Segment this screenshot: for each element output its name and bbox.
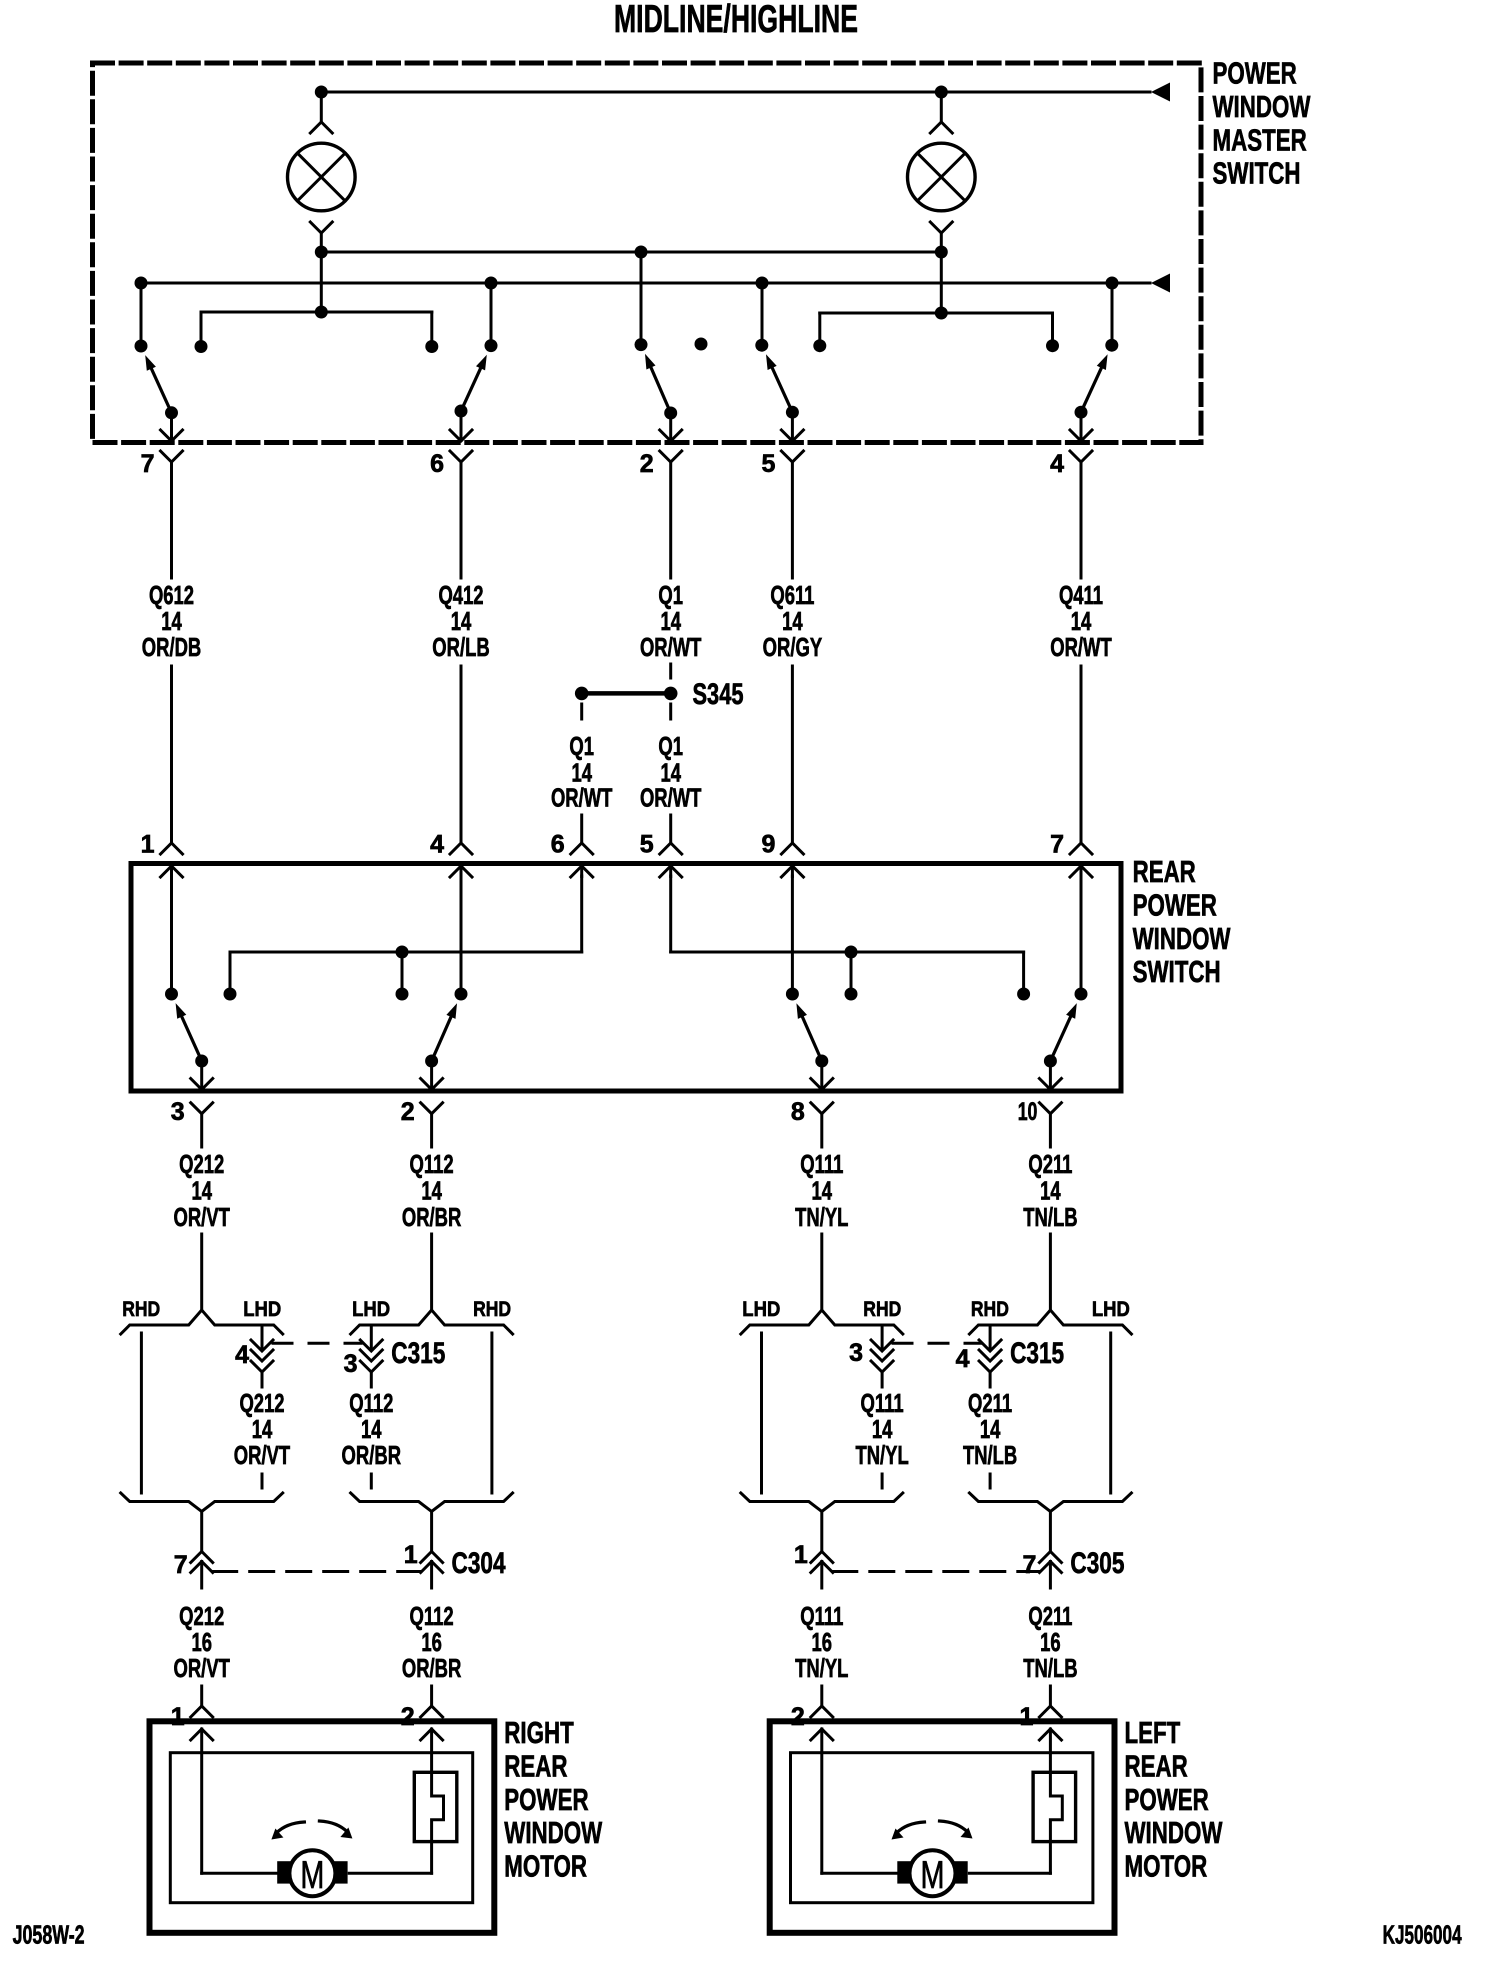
motor pin 1 connector: [191, 1706, 213, 1740]
svg-text:2: 2: [791, 1703, 805, 1731]
svg-text:2: 2: [401, 1098, 415, 1126]
motor box inner housing: [791, 1753, 1093, 1903]
rear switch pin 1 connector: [161, 843, 183, 877]
wire label Q1 14 OR/WT (right branch): [640, 731, 702, 813]
splice S345: [575, 687, 678, 701]
switch contact dot (701,344): [695, 338, 708, 351]
wire Q211 plain branch: [1109, 1333, 1112, 1493]
wire bus y=283 with junction dots: [135, 277, 1119, 290]
master switch pin 6 connector: [450, 413, 472, 578]
wire stub x=491: [490, 283, 493, 346]
rear switch interior wire pin9: [791, 876, 794, 994]
master switch pin6 arm: [455, 355, 487, 418]
rear switch interior wire pin5 to right bus: [671, 876, 1024, 994]
switch contact dot (641,344.6): [635, 338, 648, 351]
motor box inner housing: [170, 1753, 472, 1903]
power window master switch dashed box: [93, 63, 1202, 443]
switch contact dot (491,345.6): [485, 339, 498, 352]
rear switch interior wire pin6 to left bus: [230, 876, 582, 994]
wire label Q211 14 TN/LB: [1023, 1149, 1077, 1232]
label LEFT REAR POWER WINDOW MOTOR: [1125, 1715, 1223, 1884]
wire bus y=313 right: [820, 307, 1053, 320]
rear switch contact dot (792.4,994): [786, 988, 799, 1001]
svg-text:Q212: Q212: [179, 1149, 224, 1179]
rear switch contact dot (1081,994): [1075, 988, 1088, 1001]
wire 5 run to rear switch: [791, 666, 794, 843]
svg-text:POWER: POWER: [1213, 56, 1297, 91]
svg-text:M: M: [921, 1854, 945, 1897]
svg-text:MIDLINE/HIGHLINE: MIDLINE/HIGHLINE: [614, 0, 858, 41]
wire label Q412 14 OR/LB: [432, 580, 489, 662]
svg-text:MOTOR: MOTOR: [504, 1849, 587, 1884]
svg-text:Q1: Q1: [569, 731, 594, 761]
master switch pin2 arm: [645, 354, 677, 420]
svg-text:RIGHT: RIGHT: [504, 1715, 573, 1750]
wire Q112 plain branch: [490, 1333, 493, 1493]
svg-text:14: 14: [812, 1176, 833, 1206]
svg-text:WINDOW: WINDOW: [504, 1815, 602, 1850]
rear switch contact dot (230,994): [224, 988, 237, 1001]
wire 4 run to rear switch: [1080, 666, 1083, 843]
svg-text:REAR: REAR: [504, 1748, 567, 1783]
lamp 2 (illumination lamp): [908, 143, 976, 211]
wire label Q1 14 OR/WT (left branch): [551, 731, 613, 813]
svg-text:TN/LB: TN/LB: [963, 1440, 1017, 1470]
svg-text:OR/VT: OR/VT: [174, 1202, 230, 1232]
circuit breaker: [414, 1729, 457, 1873]
rear switch pin 9 connector: [781, 843, 803, 877]
svg-text:4: 4: [235, 1341, 249, 1369]
harness split top brace at x=821.8: [741, 1310, 903, 1334]
circuit breaker: [1033, 1729, 1076, 1873]
lamp 1 (illumination lamp): [288, 143, 356, 211]
motor pin 2 connector: [421, 1706, 443, 1740]
wire motor feed right: [349, 1872, 431, 1875]
svg-text:LHD: LHD: [742, 1297, 780, 1321]
wire label Q612 14 OR/DB: [142, 580, 202, 662]
svg-text:OR/BR: OR/BR: [402, 1202, 462, 1232]
svg-text:SWITCH: SWITCH: [1213, 156, 1301, 191]
wire label Q111 14 TN/YL (branch): [855, 1388, 908, 1470]
svg-text:C304: C304: [452, 1547, 506, 1580]
svg-text:7: 7: [141, 450, 155, 478]
wire Q111 run to motor: [820, 1686, 823, 1706]
connector C305 pin 1 half: [811, 1552, 833, 1589]
svg-text:RHD: RHD: [122, 1297, 160, 1321]
switch contact dot (761.8,345.2): [755, 339, 768, 352]
svg-text:S345: S345: [693, 678, 744, 711]
wire label Q111 16 TN/YL: [795, 1601, 848, 1683]
wire stub x=141: [140, 283, 143, 346]
svg-text:OR/GY: OR/GY: [763, 632, 823, 662]
svg-text:7: 7: [1050, 831, 1064, 859]
svg-text:LHD: LHD: [352, 1297, 390, 1321]
svg-text:REAR: REAR: [1133, 854, 1196, 889]
harness split top brace at x=1050.4: [969, 1310, 1131, 1334]
master switch pin 4 connector: [1070, 413, 1092, 578]
wire dashes to bottom brace: [370, 1474, 373, 1492]
connector C315 half at x=990: [979, 1325, 1001, 1387]
label RIGHT REAR POWER WINDOW MOTOR: [504, 1715, 602, 1884]
switch contact dot (819.8,345.7): [813, 339, 826, 352]
svg-text:RHD: RHD: [971, 1297, 1009, 1321]
motor box outer (RIGHT): [150, 1721, 495, 1933]
wire Q112 run to motor: [430, 1686, 433, 1706]
C304 link dashes: [213, 1570, 421, 1573]
svg-text:OR/DB: OR/DB: [142, 632, 202, 662]
master switch pin4 arm: [1075, 354, 1108, 418]
motor rotation arrows: [271, 1821, 352, 1840]
rear switch pin 10 connector: [1039, 1061, 1061, 1147]
wire Q212 run to motor: [200, 1686, 203, 1706]
svg-text:POWER: POWER: [1133, 887, 1217, 922]
wire motor feed right: [969, 1872, 1050, 1875]
rear switch pin 7 connector: [1070, 843, 1092, 877]
wire Q112 run to harness split: [430, 1234, 433, 1308]
svg-text:6: 6: [430, 450, 444, 478]
wire label Q212 14 OR/VT (branch): [234, 1388, 290, 1470]
motor M1: [897, 1850, 967, 1897]
svg-text:TN/YL: TN/YL: [855, 1440, 908, 1470]
svg-text:MASTER: MASTER: [1213, 122, 1307, 157]
wire label Q212 16 OR/VT: [174, 1601, 230, 1683]
wire label Q211 16 TN/LB: [1023, 1601, 1077, 1683]
svg-text:4: 4: [430, 831, 444, 859]
svg-text:TN/YL: TN/YL: [795, 1653, 848, 1683]
svg-text:REAR: REAR: [1125, 1748, 1188, 1783]
svg-text:2: 2: [640, 450, 654, 478]
rear switch stub left bus: [396, 946, 409, 995]
svg-text:C315: C315: [1010, 1337, 1064, 1370]
wire label Q1 14 OR/WT: [640, 580, 702, 662]
label REAR POWER WINDOW SWITCH: [1133, 854, 1231, 989]
wire lamp bus y=252: [315, 246, 948, 259]
wire stub x=431.8: [430, 312, 433, 347]
svg-text:WINDOW: WINDOW: [1125, 1815, 1223, 1850]
wire Q212 run to harness split: [200, 1234, 203, 1308]
svg-text:LHD: LHD: [243, 1297, 281, 1321]
svg-text:TN/LB: TN/LB: [1023, 1653, 1077, 1683]
wire Q111 run to harness split: [820, 1234, 823, 1308]
svg-text:14: 14: [1040, 1176, 1061, 1206]
wire Q211 run to motor: [1049, 1686, 1052, 1706]
svg-text:RHD: RHD: [863, 1297, 901, 1321]
off-page arrow top bus: [1151, 83, 1170, 102]
rear switch pin 8 connector: [811, 1061, 833, 1147]
harness split bottom brace at x=201.7: [121, 1493, 283, 1512]
splice branch dashes: [582, 704, 671, 728]
wire 7 run to rear switch: [170, 666, 173, 843]
svg-text:3: 3: [849, 1339, 863, 1367]
rear switch pin10 arm: [1044, 1003, 1077, 1067]
rear switch pin 6 connector: [571, 843, 593, 877]
rear switch contact dot (171.5,994): [165, 988, 178, 1001]
svg-text:Q112: Q112: [410, 1149, 454, 1179]
svg-text:1: 1: [404, 1541, 418, 1569]
wire from split to connector: [820, 1512, 823, 1552]
master switch pin 5 connector: [781, 413, 803, 578]
svg-text:WINDOW: WINDOW: [1133, 921, 1231, 956]
wire from split to connector: [430, 1512, 433, 1552]
svg-text:1: 1: [1019, 1703, 1033, 1731]
motor pin 2 connector: [811, 1706, 833, 1740]
wire dashes to bottom brace: [989, 1474, 992, 1492]
off-page arrow bus y=283: [1151, 274, 1170, 293]
connector C315 half at x=262: [251, 1325, 273, 1387]
svg-text:OR/WT: OR/WT: [640, 632, 702, 662]
lamp 2 connector bottom: [930, 222, 952, 252]
wire label Q212 14 OR/VT: [174, 1149, 230, 1232]
svg-text:1: 1: [141, 831, 155, 859]
svg-text:6: 6: [551, 831, 565, 859]
svg-text:8: 8: [791, 1098, 805, 1126]
connector C315 half at x=882: [871, 1325, 893, 1387]
svg-text:WINDOW: WINDOW: [1213, 89, 1311, 124]
lamp 2 connector top: [930, 92, 952, 133]
wire Q111 plain branch: [760, 1333, 763, 1493]
rear switch pin 2 connector: [421, 1061, 443, 1147]
svg-text:4: 4: [956, 1345, 970, 1373]
motor pin 1 connector: [1039, 1706, 1061, 1740]
rear switch interior wire pin7: [1080, 876, 1083, 994]
wire stub x=762: [761, 283, 764, 345]
svg-text:1: 1: [171, 1703, 185, 1731]
master switch pin 2 connector: [660, 413, 682, 578]
svg-text:M: M: [300, 1854, 324, 1897]
switch contact dot (141,346): [135, 340, 148, 353]
switch contact dot (1111.8,345.2): [1105, 339, 1118, 352]
svg-text:OR/WT: OR/WT: [551, 783, 613, 813]
connector C304 pin 1 half: [421, 1552, 443, 1589]
wire dashes to bottom brace: [261, 1474, 264, 1492]
label POWER WINDOW MASTER SWITCH: [1213, 56, 1311, 191]
wire motor feed left: [822, 1729, 898, 1873]
connector C315 half at x=371: [360, 1325, 382, 1387]
svg-text:OR/VT: OR/VT: [234, 1440, 290, 1470]
svg-text:OR/WT: OR/WT: [1050, 632, 1112, 662]
wire label Q111 14 TN/YL: [795, 1149, 848, 1232]
svg-text:7: 7: [174, 1551, 188, 1579]
rear switch interior wire pin1: [170, 876, 173, 994]
svg-text:OR/WT: OR/WT: [640, 783, 702, 813]
C305 link dashes: [833, 1570, 1040, 1573]
harness split bottom brace at x=431.6: [351, 1493, 513, 1512]
svg-text:3: 3: [344, 1350, 358, 1378]
svg-text:OR/BR: OR/BR: [402, 1653, 462, 1683]
svg-text:POWER: POWER: [504, 1782, 588, 1817]
svg-text:C305: C305: [1070, 1547, 1124, 1580]
wire splice branches to rear switch: [582, 815, 671, 843]
svg-text:Q1: Q1: [658, 731, 683, 761]
svg-text:4: 4: [1050, 450, 1064, 478]
svg-text:10: 10: [1018, 1098, 1038, 1126]
svg-text:Q111: Q111: [800, 1149, 843, 1179]
C315 link dashes left: [273, 1342, 361, 1345]
master switch pin 7 connector: [161, 413, 183, 578]
svg-text:C315: C315: [391, 1337, 445, 1370]
svg-text:POWER: POWER: [1125, 1782, 1209, 1817]
harness split bottom brace at x=1050.4: [969, 1493, 1131, 1512]
svg-text:LHD: LHD: [1092, 1297, 1130, 1321]
svg-text:TN/YL: TN/YL: [795, 1202, 848, 1232]
svg-text:TN/LB: TN/LB: [1023, 1202, 1077, 1232]
rear switch stub right bus: [845, 946, 858, 995]
wire label Q411 14 OR/WT: [1050, 580, 1112, 662]
wire stub x=1112: [1111, 283, 1114, 345]
wire bus y=312 left: [201, 306, 432, 319]
wire label Q112 16 OR/BR: [402, 1601, 462, 1683]
wire label Q112 14 OR/BR (branch): [342, 1388, 402, 1470]
svg-text:Q211: Q211: [1028, 1149, 1072, 1179]
lamp 1 connector bottom: [310, 222, 332, 252]
svg-text:5: 5: [761, 450, 775, 478]
wire Q212 plain branch: [140, 1333, 143, 1493]
rear switch pin 3 connector: [191, 1061, 213, 1147]
wire top bus y=92 with junction dots: [315, 86, 1150, 99]
harness split top brace at x=201.7: [121, 1310, 283, 1334]
rear switch pin 5 connector: [660, 843, 682, 877]
wire motor feed left: [202, 1729, 278, 1873]
wire label Q211 14 TN/LB (branch): [963, 1388, 1017, 1470]
C315 link dashes right: [893, 1342, 981, 1345]
svg-text:14: 14: [421, 1176, 442, 1206]
rear switch pin2 arm: [425, 1003, 457, 1067]
lamp 2 stem to bus y=313: [940, 252, 943, 313]
wire Q1 into splice: [669, 664, 672, 678]
wire label Q611 14 OR/GY: [763, 580, 823, 662]
motor M1: [277, 1850, 347, 1897]
connector C304 pin 7 half: [191, 1552, 213, 1589]
master switch pin5 arm: [766, 354, 799, 418]
svg-text:2: 2: [401, 1703, 415, 1731]
svg-text:OR/VT: OR/VT: [174, 1653, 230, 1683]
rear switch pin 4 connector: [450, 843, 472, 877]
motor rotation arrows: [892, 1821, 973, 1840]
svg-text:OR/LB: OR/LB: [432, 632, 489, 662]
rear switch contact dot (461,994): [455, 988, 468, 1001]
svg-text:9: 9: [761, 831, 775, 859]
svg-text:RHD: RHD: [473, 1297, 511, 1321]
connector C305 pin 7 half: [1039, 1552, 1061, 1589]
svg-text:J058W-2: J058W-2: [13, 1920, 85, 1950]
rear power window switch box: [131, 864, 1121, 1092]
rear switch pin3 arm: [176, 1003, 209, 1067]
svg-text:7: 7: [1022, 1551, 1036, 1579]
switch contact dot (431.8,346.5): [425, 340, 438, 353]
rear switch pin8 arm: [796, 1003, 828, 1067]
motor box outer (LEFT): [770, 1721, 1115, 1933]
svg-text:KJ506004: KJ506004: [1383, 1919, 1462, 1949]
master switch pin7 arm: [145, 355, 178, 419]
wire 6 run to rear switch: [460, 666, 463, 843]
svg-text:LEFT: LEFT: [1125, 1715, 1181, 1750]
wire pin2 feed from lamp bus: [635, 246, 648, 345]
svg-text:SWITCH: SWITCH: [1133, 954, 1221, 989]
lamp 1 stem to bus y=312: [320, 252, 323, 312]
wire stub x=1052.5: [1051, 313, 1054, 346]
rear switch contact dot (1023.6,994): [1017, 988, 1030, 1001]
wire from split to connector: [200, 1512, 203, 1552]
wire label Q112 14 OR/BR: [402, 1149, 462, 1232]
svg-text:1: 1: [794, 1541, 808, 1569]
lamp 1 connector top: [310, 92, 332, 133]
switch contact dot (1052.5,345.7): [1046, 339, 1059, 352]
svg-text:3: 3: [171, 1098, 185, 1126]
rear switch interior wire pin4: [460, 876, 463, 994]
wire stub x=201: [200, 312, 203, 347]
wire Q211 run to harness split: [1049, 1234, 1052, 1308]
harness split bottom brace at x=821.8: [741, 1493, 903, 1512]
svg-text:MOTOR: MOTOR: [1125, 1849, 1208, 1884]
switch contact dot (201,346.5): [195, 340, 208, 353]
wire dashes to bottom brace: [881, 1474, 884, 1492]
wire stub x=819.8: [818, 313, 821, 346]
rear switch contact dot (402,994): [396, 988, 409, 1001]
harness split top brace at x=431.6: [351, 1310, 513, 1334]
svg-text:5: 5: [640, 831, 654, 859]
svg-text:OR/BR: OR/BR: [342, 1440, 402, 1470]
rear switch contact dot (851,994): [845, 988, 858, 1001]
svg-text:14: 14: [191, 1176, 212, 1206]
wire from split to connector: [1049, 1512, 1052, 1552]
